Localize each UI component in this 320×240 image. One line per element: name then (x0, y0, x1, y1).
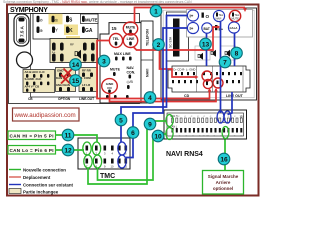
svg-text:optionnel: optionnel (213, 186, 233, 191)
middle pinout box (100, 22, 141, 103)
svg-text:GA: GA (85, 28, 93, 34)
tmc blue pin ellipses (118, 142, 126, 155)
red circled pins (202, 71, 212, 81)
svg-text:GND: GND (57, 69, 63, 73)
mute wire top (135, 8, 246, 23)
wire blue tel/navi to RNS4 pin (220, 22, 222, 113)
svg-text:I+: I+ (190, 14, 194, 19)
svg-text:Deplacement: Deplacement (23, 175, 51, 180)
svg-text:BAT: BAT (204, 27, 210, 31)
BLUE wires (121, 16, 235, 158)
svg-text:CO: CO (107, 86, 112, 90)
navi connector colored ellipses (166, 115, 173, 127)
speaker icon boxes inside NAVI (195, 46, 210, 60)
CD / LINE OUT edge connector (168, 66, 250, 98)
svg-text:14: 14 (72, 62, 80, 69)
symphony unit outer box (9, 14, 140, 104)
svg-text:MAX LINE: MAX LINE (114, 52, 131, 56)
LINE-OUT connector (79, 68, 98, 92)
svg-text:⊘: ⊘ (40, 18, 44, 23)
svg-text:NAVI RNS4: NAVI RNS4 (166, 151, 203, 158)
node marker 11 (62, 129, 74, 141)
svg-text:Arriere: Arriere (216, 180, 231, 185)
node marker 1 (150, 5, 162, 17)
svg-text:GNA CHAN: GNA CHAN (56, 83, 70, 87)
svg-text:C+ CD R- L- GND: C+ CD R- L- GND (173, 68, 195, 72)
node marker 14 (70, 59, 82, 71)
svg-text:MUTE: MUTE (110, 68, 121, 72)
svg-text:16: 16 (220, 156, 228, 163)
svg-text:RF: RF (70, 43, 74, 47)
SC-93A fuse holder (167, 12, 189, 61)
svg-text:12V: 12V (240, 116, 245, 119)
www.audipassion.com box (13, 108, 80, 121)
RED wires (97, 8, 245, 102)
svg-text:I+: I+ (190, 26, 194, 31)
svg-text:MUTE: MUTE (85, 17, 98, 22)
page border (7, 5, 259, 196)
svg-text:6: 6 (131, 130, 135, 137)
node marker 12 (62, 144, 74, 156)
svg-text:K: K (69, 28, 73, 34)
svg-text:NAVI: NAVI (216, 17, 222, 21)
svg-text:MUTE: MUTE (126, 26, 136, 30)
svg-text:15: 15 (112, 26, 118, 31)
svg-text:Partie inchangee: Partie inchangee (23, 190, 59, 195)
legend (9, 168, 74, 195)
svg-text:L+: L+ (52, 50, 56, 54)
svg-text:10: 10 (154, 133, 162, 140)
OPTION connector (56, 68, 76, 92)
NAVI RNS4 main connector (164, 110, 247, 139)
node marker 6 (127, 127, 139, 139)
g/nd wire (110, 89, 217, 102)
Signal Marche Arriere box (203, 171, 244, 195)
svg-text:CAN HI = Pin 5 PI: CAN HI = Pin 5 PI (10, 134, 54, 139)
svg-text:12: 12 (64, 147, 72, 154)
svg-text:NAVI: NAVI (146, 69, 150, 77)
svg-text:OPTION: OPTION (58, 97, 71, 101)
TMC box (78, 138, 130, 169)
tmc green pin ellipses (83, 142, 91, 155)
node marker 16 (218, 153, 230, 165)
svg-text:7.5 A: 7.5 A (20, 26, 25, 37)
node marker 3 (98, 55, 110, 67)
radio chassis outline (31, 14, 98, 98)
wire blue line-out to TMC pin 12 (126, 28, 188, 158)
wire green CAN HI to TMC pin 2 (56, 135, 98, 143)
wire blue gala to CD connector (234, 34, 236, 67)
svg-text:TEL: TEL (235, 13, 240, 17)
svg-text:7: 7 (223, 59, 227, 66)
svg-text:TEL: TEL (219, 13, 224, 17)
node marker 4 (144, 92, 156, 104)
NAVI top circles row2 (187, 22, 239, 34)
svg-text:LINE-OUT: LINE-OUT (79, 97, 94, 101)
svg-text:TEL: TEL (113, 37, 119, 41)
bottom connector beige strip (23, 68, 98, 93)
svg-text:LINE: LINE (127, 37, 135, 41)
row2 icons (37, 27, 40, 34)
tel wire (97, 41, 210, 99)
wire blue line-out to RNS4 pin (228, 92, 233, 115)
node marker 9 (144, 118, 156, 130)
CAN HI box (8, 131, 56, 140)
red circles TEL LINE (109, 34, 122, 48)
speaker glyph (78, 50, 82, 59)
svg-text:Y: Y (55, 28, 58, 33)
svg-text:O: O (206, 14, 210, 19)
svg-text:5: 5 (119, 117, 123, 124)
svg-text:LF LR: LF LR (82, 83, 91, 87)
svg-text:⊕: ⊕ (40, 28, 44, 33)
svg-text:◎/B: ◎/B (127, 80, 134, 84)
svg-text:Schema connexion Symphony - TM: Schema connexion Symphony - TMC - NAVI R… (3, 0, 192, 4)
svg-text:Nouvelle connection: Nouvelle connection (23, 168, 66, 173)
red X marks (61, 69, 73, 84)
top icon box (33, 14, 98, 40)
numbered cyan circles (62, 5, 242, 165)
svg-text:CB: CB (28, 97, 33, 101)
wire green TMC pin 9 to RNS4 CAN L (98, 134, 167, 180)
svg-text:TELEFON: TELEFON (146, 29, 150, 46)
svg-text:SYMPHONY: SYMPHONY (10, 7, 48, 14)
fuse 7.5A (14, 14, 29, 46)
svg-text:15: 15 (72, 78, 80, 85)
svg-text:SC-93A: SC-93A (169, 36, 173, 48)
svg-text:8: 8 (235, 50, 239, 57)
node marker 2 (153, 39, 165, 51)
node marker 7 (219, 56, 231, 68)
wire blue bat to CD connector (206, 34, 208, 67)
svg-text:CON.: CON. (127, 71, 136, 75)
svg-text:NAV.: NAV. (127, 66, 135, 70)
svg-text:CAN Lo = Pin 6 PI: CAN Lo = Pin 6 PI (10, 148, 54, 153)
node marker 10 (152, 130, 164, 142)
NAVI top circles row1 (187, 10, 240, 22)
node marker 5 (115, 114, 127, 126)
wire blue line-out to TMC pin 6 (121, 16, 188, 143)
node marker 8 (231, 47, 243, 59)
node marker 15 (70, 75, 82, 87)
svg-text:www.audipassion.com: www.audipassion.com (14, 112, 76, 119)
svg-text:2: 2 (157, 42, 161, 49)
svg-text:J- COM: J- COM (81, 76, 92, 80)
node marker 13 (200, 38, 212, 50)
wire green CAN Lo to TMC pin 1 (56, 149, 85, 151)
svg-text:13: 13 (202, 41, 210, 48)
wire green reverse signal (224, 140, 226, 171)
row1 icons (37, 16, 40, 22)
svg-text:1: 1 (154, 8, 158, 15)
svg-text:◎: ◎ (55, 18, 59, 23)
svg-text:AF-B ACC C-O: AF-B ACC C-O (25, 70, 46, 74)
G/ND CO red circle (102, 79, 118, 94)
svg-text:3: 3 (102, 58, 106, 65)
GREEN wires (56, 121, 226, 184)
branch to CD pin (160, 50, 197, 77)
CAN Lo box (8, 146, 56, 155)
svg-text:RF RR: RF RR (82, 69, 92, 73)
red circle MUTE (123, 22, 137, 35)
NAVI face panel (187, 10, 253, 38)
svg-text:Signal Marche: Signal Marche (208, 174, 239, 179)
line wire (134, 27, 220, 50)
svg-text:LINE OUT: LINE OUT (226, 94, 244, 98)
NAVI unit outer box (161, 8, 257, 100)
wire green TMC pin 8 to RNS4 CAN H (88, 121, 166, 184)
speaker connector beige panel (50, 36, 98, 63)
svg-text:TMC: TMC (100, 173, 115, 180)
svg-text:MUTE: MUTE (232, 17, 240, 21)
svg-text:4: 4 (148, 95, 152, 102)
svg-text:GALA: GALA (230, 26, 238, 30)
thin TELEFON/NAVI box (141, 21, 153, 103)
speaker icons (198, 50, 230, 60)
svg-text:Connection sur existant: Connection sur existant (23, 183, 74, 188)
bottom icons (106, 95, 109, 99)
antenna circle (17, 52, 33, 68)
svg-text:11: 11 (65, 132, 72, 139)
svg-text:CD: CD (184, 94, 190, 98)
svg-text:9: 9 (148, 121, 152, 128)
